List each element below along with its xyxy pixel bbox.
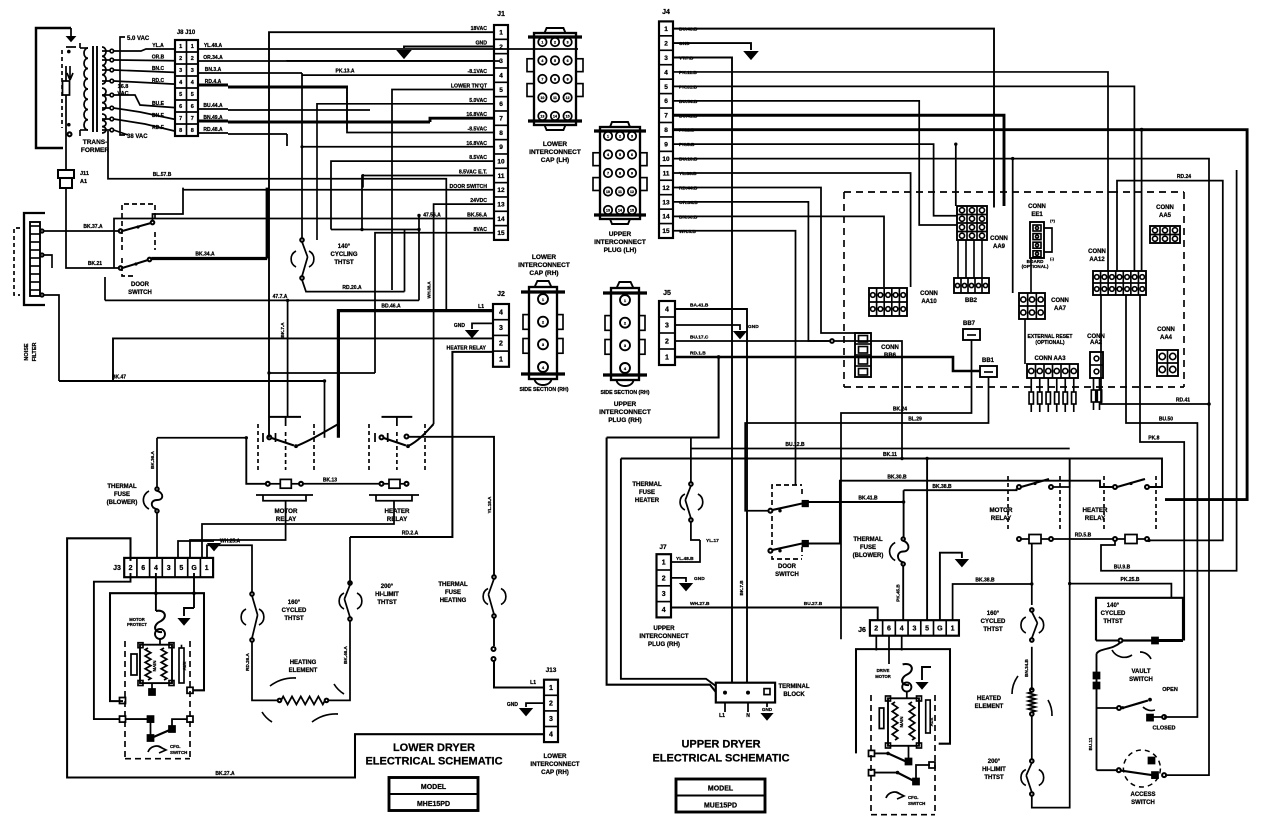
svg-text:AA9: AA9 [993, 244, 1006, 250]
svg-text:10: 10 [662, 156, 670, 163]
svg-text:3: 3 [665, 322, 669, 329]
thermal fuse heating lower [492, 575, 496, 579]
wire transformer to J11 [65, 110, 67, 170]
svg-text:FUSE: FUSE [639, 490, 655, 496]
svg-text:7: 7 [499, 116, 503, 123]
svg-text:14: 14 [618, 209, 622, 213]
svg-text:13: 13 [497, 202, 505, 209]
svg-text:5.0VAC: 5.0VAC [469, 98, 487, 104]
wire J1 pin14 long run [114, 218, 494, 268]
wire J8 pin3 run [228, 72, 302, 74]
svg-text:15: 15 [566, 115, 570, 119]
wire BK.11 branch to J6 pin5 [926, 459, 928, 621]
svg-text:BK.56.A: BK.56.A [467, 212, 487, 218]
wire J8 pin7 BN.49.A [198, 120, 228, 123]
svg-text:CONN: CONN [1028, 204, 1046, 210]
ground chassis at transformer [66, 46, 76, 48]
svg-text:THERMAL: THERMAL [632, 482, 662, 488]
wire J6 pin6 down [888, 636, 890, 664]
svg-text:1: 1 [549, 685, 553, 692]
svg-text:MOTOR: MOTOR [990, 507, 1013, 514]
thermal fuse blower upper [902, 537, 905, 540]
svg-text:(+): (+) [1050, 218, 1056, 223]
heater relay lower dashed frame [368, 424, 370, 470]
svg-text:1: 1 [951, 625, 955, 632]
motor relay lower dashed frame [257, 424, 259, 470]
wire tap4 to J8 pin4 [114, 81, 175, 84]
vault open contact [1148, 698, 1152, 702]
svg-text:PK.5.B: PK.5.B [679, 142, 695, 148]
svg-text:BK.41.B: BK.41.B [858, 496, 878, 502]
door switch upper dashed box [772, 485, 802, 505]
svg-text:BK.34.A: BK.34.A [195, 252, 215, 258]
svg-text:BU.9.B: BU.9.B [1114, 564, 1131, 570]
wire BK.11 long horizontal to heater relay [621, 459, 1162, 488]
wire EE1 to AA7 [1030, 258, 1032, 293]
svg-text:-8.1VAC: -8.1VAC [467, 69, 487, 75]
svg-text:AA7: AA7 [1054, 306, 1067, 312]
connector J5 [659, 301, 675, 365]
svg-text:BK.36.A: BK.36.A [150, 451, 155, 469]
wire J2 pin1 down to RD.2.A heating chain [350, 352, 493, 537]
access switch dashed circle [1123, 750, 1160, 787]
svg-text:SWITCH: SWITCH [908, 801, 925, 806]
svg-text:RD.F: RD.F [152, 125, 164, 131]
svg-text:10: 10 [540, 96, 544, 100]
wire protector to winding box [906, 692, 908, 699]
svg-text:LOWER: LOWER [543, 141, 567, 148]
noise suppressor housing [24, 213, 45, 305]
svg-text:PLUG (RH): PLUG (RH) [608, 417, 642, 424]
motor relay lower base [263, 495, 306, 501]
connector J13 [544, 680, 558, 742]
svg-text:BK.7.A: BK.7.A [280, 322, 285, 338]
svg-text:6: 6 [664, 98, 668, 105]
svg-text:CYCLED: CYCLED [1101, 611, 1126, 617]
motor relay upper coil [1017, 537, 1021, 541]
svg-text:16.8: 16.8 [118, 84, 129, 90]
svg-text:3: 3 [499, 58, 503, 65]
svg-text:RD.20.A: RD.20.A [342, 285, 362, 291]
box around 140 cycled thermostat upper [1096, 598, 1183, 641]
svg-text:GND: GND [679, 41, 690, 47]
wire J4 pin7 thick to CONN AA9 [673, 115, 1004, 206]
motor upper switch mid terminal [906, 759, 912, 765]
svg-text:2: 2 [129, 565, 133, 572]
wire heating element right side up [328, 637, 350, 700]
wire J3 pin2 frame down-left [94, 573, 131, 719]
svg-text:YL.48.B: YL.48.B [676, 556, 694, 562]
wire heater relay coil drop to J3 [202, 501, 394, 558]
svg-text:5: 5 [619, 153, 621, 157]
model table lower [389, 778, 478, 811]
wire element to 200 hi-limit upper [1031, 716, 1033, 759]
svg-text:CAP (RH): CAP (RH) [541, 769, 569, 776]
svg-text:PK.31.B: PK.31.B [679, 84, 698, 90]
svg-text:2: 2 [874, 625, 878, 632]
connector J7 [657, 554, 672, 617]
motor relay upper dashed [1007, 476, 1009, 532]
svg-text:CYCLED: CYCLED [282, 608, 307, 614]
svg-text:BK.21: BK.21 [88, 261, 102, 267]
motor lower start element [179, 648, 184, 683]
wire J1 pin6 [317, 104, 494, 110]
svg-text:2: 2 [499, 341, 503, 348]
svg-text:4: 4 [607, 153, 609, 157]
svg-text:INTERCONNECT: INTERCONNECT [529, 149, 581, 156]
wire J4 pin11 to AA10 [673, 173, 911, 287]
wire tap2 to J8 pin2 [114, 59, 175, 62]
svg-text:OR.34.A: OR.34.A [203, 55, 223, 61]
heater relay upper coil [1113, 537, 1117, 541]
wire J5 pin2 run into console [901, 287, 903, 340]
svg-text:1: 1 [541, 41, 543, 45]
motor lower dashed enclosure [124, 641, 126, 759]
svg-text:6: 6 [567, 59, 569, 63]
CONN AA7 block [1019, 293, 1045, 319]
lower interconnect cap LH illustration [534, 33, 576, 125]
svg-text:8: 8 [619, 172, 621, 176]
svg-text:GND: GND [694, 576, 705, 582]
motor upper main winding [892, 702, 898, 740]
wire BK.13 between relay coils [303, 483, 380, 485]
wire AA12 bottom exit RD.41 joins access riser [1101, 295, 1209, 404]
wire J3 pin4 to motor protector [155, 573, 157, 611]
svg-text:6: 6 [499, 101, 503, 108]
svg-text:2: 2 [662, 575, 666, 582]
svg-text:8: 8 [191, 128, 194, 134]
wire branch to AA7 from pin10 [1012, 159, 1014, 293]
wire J1 pin9 [302, 146, 494, 148]
wire RD.20.A riser to y229 rail [404, 230, 406, 292]
wire J5 pin1 RD.1.B thick [675, 357, 980, 371]
svg-text:J13: J13 [546, 667, 557, 674]
svg-text:CONN: CONN [1157, 327, 1175, 333]
svg-text:15: 15 [630, 209, 634, 213]
wire x324 vertical from BK.47 [324, 381, 326, 438]
connector J4 [659, 21, 673, 238]
svg-text:RD.2.A: RD.2.A [402, 531, 419, 537]
svg-text:INTERCONNECT: INTERCONNECT [518, 262, 570, 269]
wire door pole2 out BK.30.B to heater relay [808, 481, 1113, 544]
wire J1 pin13 24VDC to heater relay blade [434, 204, 494, 424]
svg-text:WH.27.B: WH.27.B [690, 601, 710, 607]
ground arrow near J3 [178, 541, 214, 558]
heating element lower [278, 699, 282, 703]
motor relay upper contacts [1017, 485, 1021, 489]
svg-text:BD.46.A: BD.46.A [381, 304, 401, 310]
svg-text:VAC: VAC [117, 91, 128, 97]
svg-text:3: 3 [567, 41, 569, 45]
heater relay lower top bracket [382, 416, 413, 418]
svg-text:(OPTIONAL): (OPTIONAL) [1022, 264, 1049, 269]
heater relay lower coil [380, 482, 384, 486]
motor upper winding box [888, 698, 919, 746]
wire J6 pin2 down to motor [875, 636, 877, 651]
wire BL.57.B from transformer area to J2 pin4 net [108, 131, 446, 311]
svg-text:HEATER RELAY: HEATER RELAY [447, 345, 487, 351]
svg-text:DOOR SWITCH: DOOR SWITCH [450, 184, 488, 190]
wire tap1 to J8 pin1 [114, 49, 175, 51]
svg-text:LOWER: LOWER [532, 254, 556, 261]
motor upper capacitor [879, 708, 884, 729]
wire AA9 to BB2 verticals [957, 240, 959, 278]
svg-text:6: 6 [191, 104, 194, 110]
svg-text:BN.C: BN.C [152, 66, 165, 72]
upper interconnect plug RH illustration [611, 288, 639, 380]
motor upper aux winding [909, 702, 915, 740]
svg-text:BU.50: BU.50 [1159, 417, 1173, 423]
svg-text:WH.5.B: WH.5.B [679, 229, 696, 235]
svg-text:HEATING: HEATING [290, 660, 317, 666]
wire J8 pin3 BN.3.A [198, 72, 228, 74]
wire motor relay upper output [1053, 459, 1070, 488]
svg-text:HEATED: HEATED [977, 696, 1002, 702]
connector J2 [493, 304, 509, 367]
wire RD.24 from AA12 to heater relay coil [1117, 181, 1223, 541]
svg-text:2: 2 [664, 40, 668, 47]
svg-text:UPPER: UPPER [609, 231, 632, 238]
svg-text:200°: 200° [381, 584, 394, 590]
wire J1 pin15 [375, 233, 494, 373]
wire AA7 to AA3 [1024, 319, 1026, 364]
svg-text:4: 4 [499, 309, 503, 316]
svg-text:CONN: CONN [990, 236, 1008, 242]
svg-text:FILTER: FILTER [32, 343, 38, 362]
access switch contacts [1097, 769, 1117, 771]
wire J1 pin1 to vertical x269 [269, 32, 494, 438]
wire noise suppressor pin to door switch BK.37.A [40, 229, 43, 232]
wire J1 pin4 PK.13.A [302, 74, 494, 76]
wire J8 pin8 RD.48.A [198, 132, 228, 134]
svg-text:3: 3 [912, 625, 916, 632]
console dashed boundary upper [844, 191, 1111, 193]
svg-text:INTERCONNECT: INTERCONNECT [530, 761, 579, 768]
svg-text:RD.24: RD.24 [1177, 174, 1191, 180]
svg-text:BK.37.A: BK.37.A [83, 224, 103, 230]
wire noise suppressor mid pin [40, 253, 43, 256]
terminal block ground [766, 703, 768, 708]
svg-text:2: 2 [665, 338, 669, 345]
svg-text:BL.57.B: BL.57.B [153, 172, 172, 178]
CONN AA12 block [1093, 271, 1146, 295]
svg-text:AUX: AUX [182, 661, 187, 670]
svg-text:1: 1 [664, 26, 668, 33]
wire J4 pin4 to CONN AA12 [673, 72, 1108, 271]
svg-text:BB2: BB2 [965, 298, 978, 304]
svg-text:8: 8 [554, 78, 556, 82]
transformer T1 secondary winding lower [102, 114, 106, 133]
svg-text:14: 14 [662, 214, 670, 221]
svg-text:CONN: CONN [1088, 249, 1106, 255]
svg-text:38 VAC: 38 VAC [127, 134, 148, 140]
heating element upper [1030, 688, 1034, 692]
wire fuse heater to J7 pin1 YL.17 [691, 522, 700, 540]
motor lower aux winding [161, 648, 167, 680]
svg-text:SWITCH: SWITCH [1129, 677, 1153, 683]
wire J11 down to door switch [66, 196, 118, 268]
AA3 hanging lead 6 [1073, 378, 1075, 392]
wire J8 pin7 run thick [228, 121, 430, 124]
svg-text:AA5: AA5 [1159, 213, 1172, 219]
svg-text:WH.25.A: WH.25.A [220, 539, 241, 545]
svg-text:4: 4 [541, 59, 543, 63]
wire J1 pin12 [183, 189, 494, 191]
svg-text:J3: J3 [113, 565, 121, 572]
motor relay lower contacts [267, 435, 271, 439]
svg-text:ELECTRICAL SCHEMATIC: ELECTRICAL SCHEMATIC [652, 753, 789, 765]
svg-text:BB7: BB7 [963, 321, 976, 327]
svg-text:BK.13: BK.13 [323, 477, 337, 483]
svg-text:CLOSED: CLOSED [1153, 726, 1176, 732]
svg-text:9: 9 [499, 144, 503, 151]
svg-text:LOWER DRYER: LOWER DRYER [393, 742, 475, 754]
svg-text:5: 5 [179, 92, 182, 98]
svg-text:PK.13.A: PK.13.A [336, 69, 355, 75]
wire door pole1 output up to J1 pin12 net [153, 188, 184, 221]
svg-text:THTST: THTST [984, 775, 1004, 781]
svg-text:CFG.: CFG. [908, 795, 919, 800]
svg-text:PROTECT: PROTECT [127, 622, 147, 627]
motor lower ground arrow [184, 608, 194, 616]
svg-text:DOOR: DOOR [778, 564, 797, 570]
svg-text:LOWER TN'QT: LOWER TN'QT [451, 83, 488, 89]
wire J4 pin12 to BB6 [673, 187, 855, 333]
svg-text:BU.48.B: BU.48.B [679, 27, 698, 33]
svg-text:AA2: AA2 [1090, 340, 1103, 346]
svg-text:3: 3 [179, 68, 182, 74]
svg-text:BK.38.B: BK.38.B [932, 484, 952, 490]
ground arrow J1 pin2 [396, 50, 412, 59]
svg-text:NOISE: NOISE [24, 343, 30, 360]
svg-text:UPPER DRYER: UPPER DRYER [681, 739, 760, 751]
wire BB7 to motor frame BK.24 [841, 346, 972, 639]
wire tap7 to J8 pin8 [114, 119, 175, 131]
wire 200 up to RD.2.A junction [349, 537, 351, 585]
wire J4 pin9 to CONN AA9 left upper [673, 144, 957, 216]
svg-text:1: 1 [665, 354, 669, 361]
svg-text:BU.12.B: BU.12.B [785, 442, 805, 448]
svg-text:1: 1 [499, 30, 503, 37]
wire J4 pin2 ground [673, 43, 751, 50]
wire motor relay coil feed from rail [246, 438, 265, 484]
svg-text:6: 6 [887, 625, 891, 632]
connector J11 A1 [58, 170, 74, 178]
svg-text:INTERCONNECT: INTERCONNECT [594, 239, 646, 246]
wire tap6 to J8 pin7 [114, 108, 175, 119]
wire feed to cycling thermostat from pin4 net [301, 73, 303, 238]
heater relay upper contacts [1113, 485, 1117, 489]
svg-text:BN.49.A: BN.49.A [203, 115, 223, 121]
thermal fuse heater upper [690, 438, 692, 483]
wire J8 pin8 run [228, 133, 287, 135]
wire protector to winding box [159, 639, 161, 645]
svg-text:9: 9 [664, 142, 668, 149]
svg-text:TRANS-: TRANS- [83, 139, 108, 146]
fuse F1 on primary [65, 66, 67, 81]
wire J4 pin5 to CONN AA12 [673, 86, 1134, 271]
wire J8 pin4 RD.4.A [198, 84, 228, 87]
motor upper ground [922, 667, 931, 680]
svg-text:BLOCK: BLOCK [783, 692, 805, 698]
AA3 hanging lead 1 [1030, 378, 1032, 392]
svg-text:BK.11: BK.11 [883, 452, 897, 458]
secondary tap terminals [102, 50, 110, 52]
wire BB1 to door pole1 BL.29 [745, 383, 988, 511]
wire BK.47 run [59, 380, 325, 382]
svg-text:8VAC: 8VAC [474, 227, 488, 233]
svg-text:YL.17: YL.17 [706, 538, 719, 544]
svg-text:12: 12 [630, 190, 634, 194]
wire J4 pin14 to AA10 [673, 216, 884, 287]
door switch lower dashed box [122, 204, 155, 250]
wire noise suppressor lower pin to BK.47 [40, 293, 43, 296]
svg-text:15: 15 [497, 230, 505, 237]
wire motor relay coil drop to J3 [190, 501, 286, 558]
motor upper start element [926, 700, 931, 733]
svg-text:(BLOWER): (BLOWER) [853, 553, 884, 559]
wire J8 pin1 YL.48.A [198, 48, 228, 50]
svg-text:CYCLING: CYCLING [331, 252, 358, 258]
svg-text:ACCESS: ACCESS [1130, 792, 1155, 798]
svg-text:-8.5VAC: -8.5VAC [467, 126, 487, 132]
wire 200 lower stub [349, 621, 351, 637]
svg-text:7: 7 [191, 116, 194, 122]
wire heater relay contact to thermal fuse heating YL.18.A [409, 437, 495, 575]
svg-text:BU.E: BU.E [152, 101, 165, 107]
wire BD.46.A thick into J2 pin4 [338, 311, 493, 438]
wire 160 tstat to heating element [252, 642, 278, 701]
wire J4 pin3 long vertical to terminal block [673, 58, 732, 683]
svg-text:CONN: CONN [1156, 205, 1174, 211]
svg-text:2: 2 [191, 56, 194, 62]
model table upper [676, 779, 765, 812]
160 cycled thermostat upper [1030, 608, 1034, 612]
wire branch to AA9 from pin9 [955, 144, 957, 206]
svg-text:15: 15 [662, 228, 670, 235]
AA3 hanging lead 3 [1047, 378, 1049, 392]
wire J2 pin3 ground [472, 323, 493, 329]
svg-text:160°: 160° [288, 600, 301, 606]
upper frame outer vertical [607, 438, 716, 693]
svg-text:5: 5 [191, 92, 194, 98]
svg-text:3: 3 [631, 135, 633, 139]
svg-text:J11: J11 [80, 171, 89, 177]
wire J5 pin2 BU.17.C [675, 340, 830, 342]
upper frame outer top [607, 357, 719, 438]
AA3 hanging lead 2 [1039, 378, 1041, 392]
upper frame inner [621, 459, 716, 687]
svg-text:PK.8: PK.8 [1148, 436, 1159, 442]
svg-text:11: 11 [553, 96, 557, 100]
svg-text:13: 13 [540, 115, 544, 119]
wire J7 pin2 ground [671, 578, 686, 582]
motor upper centrifugal switch [869, 750, 875, 756]
svg-text:INTERCONNECT: INTERCONNECT [639, 633, 688, 640]
svg-text:RD.26.A: RD.26.A [245, 653, 250, 671]
wire pin15 net horizontal y373 [269, 372, 375, 374]
svg-text:PK.25.B: PK.25.B [1121, 577, 1140, 583]
wire BK.38.B to motor relay [904, 489, 1017, 491]
svg-text:MHE15PD: MHE15PD [417, 801, 450, 808]
svg-text:BN.E: BN.E [152, 113, 165, 119]
svg-text:BK.38.B: BK.38.B [975, 578, 995, 584]
wire thermal fuse blower feed BK.36.A [157, 437, 246, 439]
svg-text:11: 11 [663, 170, 670, 177]
wire door pole1 out BK.41.B to fuse blower [808, 501, 904, 503]
svg-text:12: 12 [497, 187, 505, 194]
svg-text:MODEL: MODEL [421, 784, 447, 791]
